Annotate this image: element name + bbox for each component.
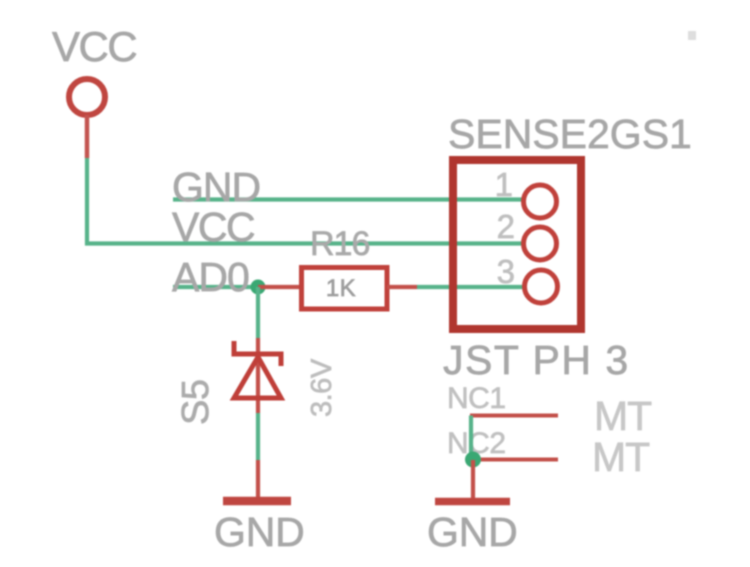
svg-text:AD0: AD0 xyxy=(172,254,249,300)
pin name NC1 xyxy=(447,382,506,415)
resistor R16 body xyxy=(302,268,388,310)
wire to ground left (red) xyxy=(256,460,260,497)
junction dot NC2 xyxy=(465,452,481,468)
wire resistor to pin 3 xyxy=(417,285,526,289)
stray mark top right xyxy=(688,31,696,40)
zener diode D1 triangle xyxy=(234,357,281,398)
pin number 1 xyxy=(495,166,513,203)
power symbol VCC xyxy=(69,79,105,158)
wire to ground right (red) xyxy=(471,460,475,498)
connector value JST PH 3 xyxy=(443,337,630,383)
junction dot node AD0 xyxy=(251,280,266,295)
svg-text:VCC: VCC xyxy=(52,23,136,70)
zener diode D1 cathode bar xyxy=(234,341,281,366)
connector SENSE2GS1 body xyxy=(453,160,581,329)
svg-text:R16: R16 xyxy=(310,225,369,263)
pin number 3 xyxy=(497,253,515,290)
svg-text:MT: MT xyxy=(592,434,650,480)
connector pin 2 circle xyxy=(524,227,557,260)
resistor R16 value 1K xyxy=(326,275,356,302)
ground label right GND xyxy=(427,509,518,555)
resistor R16 name xyxy=(310,225,369,263)
label VCC xyxy=(172,204,255,250)
zener value 3.6V (rotated) xyxy=(306,358,338,417)
svg-text:MT: MT xyxy=(594,393,652,439)
svg-text:3: 3 xyxy=(497,253,515,290)
ground symbol left xyxy=(223,497,291,506)
svg-text:VCC: VCC xyxy=(172,204,255,250)
label AD0 xyxy=(172,254,249,300)
wire net GND (row 1) xyxy=(173,197,524,201)
pin label MT 2 xyxy=(592,434,650,480)
wire zener anode (green) xyxy=(256,413,260,460)
node VCC label xyxy=(52,23,136,70)
label GND xyxy=(172,164,260,210)
zener name S5 (rotated) xyxy=(175,380,217,425)
wire net VCC (vertical + row 2) xyxy=(87,158,524,244)
pin name NC2 xyxy=(447,427,506,460)
connector pin 3 circle xyxy=(525,270,558,303)
wire zener cathode stub (red) xyxy=(256,338,260,413)
ground label left GND xyxy=(214,509,305,555)
wire junction to resistor (red) xyxy=(258,285,302,289)
svg-text:S5: S5 xyxy=(175,380,217,425)
connector pin 1 circle xyxy=(524,185,557,218)
svg-text:GND: GND xyxy=(214,509,305,555)
svg-text:NC1: NC1 xyxy=(447,382,506,415)
pin number 2 xyxy=(497,208,515,245)
pin label MT 1 xyxy=(594,393,652,439)
wire resistor right pin (red) xyxy=(387,285,417,289)
pin NC2 line (red) xyxy=(478,458,558,462)
svg-text:GND: GND xyxy=(427,509,518,555)
connector SENSE2GS1 name xyxy=(448,111,692,157)
wire NC1 to NC2 (green) xyxy=(469,416,473,460)
wire net AD0 (row 3 left) xyxy=(173,285,258,289)
svg-text:1K: 1K xyxy=(326,275,356,302)
svg-text:JST PH 3: JST PH 3 xyxy=(443,337,630,383)
pin NC1 line (red) xyxy=(470,414,558,418)
svg-text:3.6V: 3.6V xyxy=(306,358,338,417)
ground symbol right xyxy=(435,498,510,506)
wire junction to zener (green) xyxy=(256,287,260,338)
svg-text:2: 2 xyxy=(497,208,515,245)
svg-text:SENSE2GS1: SENSE2GS1 xyxy=(448,111,692,157)
svg-text:1: 1 xyxy=(495,166,513,203)
